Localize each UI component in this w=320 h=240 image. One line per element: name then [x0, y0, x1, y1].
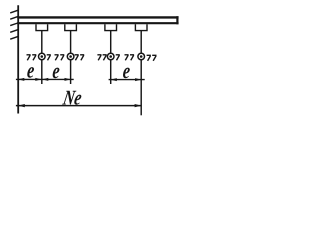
ceiling tick mark 1: [27, 55, 31, 61]
extension line from hanger 2: [70, 60, 72, 84]
arrowhead at hanger4 on Ne line: [135, 104, 142, 107]
arrowhead at wall on e line: [18, 78, 24, 81]
suspension circle 4: [138, 53, 145, 60]
suspension circle 1: [39, 53, 46, 60]
beam bottom chord: [17, 22, 178, 24]
overall dimension line Ne: [16, 105, 141, 107]
arrowhead at hanger2 tick: [65, 78, 71, 81]
hanger rod 4 (upper): [140, 31, 142, 54]
arrowhead right of hanger1 tick: [42, 78, 48, 81]
dimension line e (hanger 3 to hanger 4): [109, 79, 145, 81]
ceiling tick mark 4: [55, 55, 59, 61]
ceiling tick mark 5: [60, 55, 64, 61]
circle 1 center dot: [41, 55, 44, 58]
ceiling tick mark 2: [32, 55, 36, 61]
beam right end cap: [176, 16, 178, 24]
dimension line e (wall to hanger 2): [16, 78, 74, 80]
ceiling tick mark 11: [125, 55, 129, 61]
hanger rod 3 (upper): [110, 31, 112, 54]
hanger clamp box 1: [36, 24, 48, 30]
extension line from hanger 1: [41, 60, 43, 84]
arrowhead at hanger3 tick: [111, 78, 117, 81]
wall hatch stroke 2: [10, 17, 18, 20]
ceiling tick mark 14: [152, 55, 156, 61]
hanger clamp box 2: [65, 24, 77, 30]
circle 4 center dot: [140, 55, 143, 58]
beam top chord: [17, 16, 178, 18]
ceiling tick mark 13: [147, 55, 151, 61]
wall hatch stroke 3: [10, 23, 18, 26]
hanger clamp box 4: [135, 24, 147, 30]
circle 2 center dot: [69, 55, 72, 58]
suspension circle 2: [67, 53, 74, 60]
suspension circle 3: [107, 53, 114, 60]
wall fixed-support line (also left extension line): [17, 5, 19, 113]
wall hatch stroke 5: [10, 37, 18, 40]
arrowhead at hanger4 tick (e line): [135, 78, 141, 81]
arrowhead at wall on Ne line: [18, 104, 25, 107]
ceiling tick mark 8: [97, 55, 101, 61]
ceiling tick mark 12: [130, 55, 134, 61]
wall hatch stroke 1: [10, 10, 18, 13]
ceiling tick mark 10: [116, 55, 120, 61]
circle 3 center dot: [109, 55, 112, 58]
extension line from hanger 4 (long, to Ne line): [140, 60, 142, 116]
hanger rod 1 (upper): [41, 31, 43, 54]
extension line from hanger 3: [110, 60, 112, 84]
ceiling tick mark 9: [103, 55, 107, 61]
ceiling tick mark 7: [80, 55, 84, 61]
ceiling tick mark 6: [75, 55, 79, 61]
hanger rod 2 (upper): [70, 31, 72, 54]
wall hatch stroke 4: [10, 30, 18, 33]
hanger clamp box 3: [105, 24, 117, 30]
ceiling tick mark 3: [47, 55, 51, 61]
arrowhead left of hanger1 tick: [35, 78, 41, 81]
